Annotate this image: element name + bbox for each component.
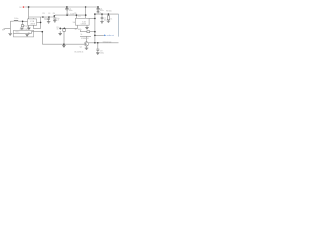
- op-amp U1A box: [28, 19, 37, 26]
- svg-text:ELECTRET: ELECTRET: [20, 29, 30, 31]
- resistor R7 fb body: [87, 31, 90, 33]
- wire V16 collector: [86, 36, 88, 41]
- wire V1 rail drop to IC1A: [28, 7, 30, 19]
- svg-text:1k: 1k: [81, 34, 83, 36]
- ground C7: [100, 22, 103, 24]
- transistor guts: [86, 42, 88, 45]
- junction node (63.9,44.2): [63, 43, 65, 45]
- wire W6 feedback2: [90, 31, 95, 33]
- svg-text:OUT1: OUT1: [96, 13, 101, 15]
- wire V11 resistor chain: [63, 27, 65, 30]
- wire IC1B gnd stub: [86, 25, 88, 27]
- wire +V rail: [25, 6, 99, 8]
- capacitor C4 elec plates: [54, 17, 57, 19]
- junction node (85.7,15.1): [85, 14, 87, 16]
- wire V8 IC1A gnd pin: [28, 25, 30, 27]
- svg-text:100n: 100n: [14, 18, 18, 20]
- resistor R6 body: [63, 29, 66, 32]
- svg-text:C4: C4: [56, 19, 58, 21]
- ground C3: [47, 22, 50, 24]
- ground C6: [97, 11, 100, 13]
- wire mic internal: [13, 32, 28, 34]
- wire gnd below W8 junction: [63, 44, 65, 45]
- pin stub top IC1A: [29, 18, 34, 26]
- ground base R: [62, 46, 66, 48]
- wire W3 feedback1: [33, 28, 40, 30]
- svg-text:5 6: 5 6: [78, 16, 80, 18]
- junction node (94.9,14.1): [94, 13, 96, 15]
- svg-text:R4: R4: [53, 13, 55, 15]
- wire IC1A output pin: [37, 21, 41, 23]
- output arrow blue: [104, 35, 106, 37]
- ground speaker cap: [96, 53, 100, 55]
- svg-text:Q1: Q1: [80, 46, 82, 48]
- svg-text:R7 100k: R7 100k: [75, 29, 82, 31]
- junction node (102,14.1): [101, 13, 103, 15]
- svg-text:BC547B 45: BC547B 45: [75, 52, 84, 54]
- wire V4 bias drop: [22, 21, 24, 24]
- wire V9 IC1B inv pin: [77, 25, 79, 28]
- ground IC1A: [27, 28, 31, 30]
- capacitor C7 plates: [101, 17, 104, 19]
- capacitor C1 series body: [14, 20, 18, 21]
- wire W7 mic exit: [34, 31, 43, 33]
- wire W10 collector right: [89, 42, 119, 44]
- wire V6 output vertical: [40, 17, 42, 29]
- svg-text:LM358: LM358: [30, 24, 35, 26]
- junction node (40.6,22.4): [40, 22, 42, 24]
- junction node (66.9,7): [66, 6, 68, 8]
- ground R8: [107, 21, 110, 23]
- wire V17 out coupling: [97, 43, 99, 49]
- ground stage2 cap: [58, 33, 62, 35]
- stub fb2 up tick: [79, 30, 81, 32]
- svg-text:MIC1: MIC1: [16, 32, 20, 34]
- svg-text:100n: 100n: [69, 10, 73, 12]
- wire C6 bypass drop: [97, 7, 99, 8]
- junction node (42.3,31.7): [42, 31, 44, 33]
- svg-text:C3: C3: [48, 13, 50, 15]
- junction node (42.9,17): [42, 16, 44, 18]
- wire input net left: [10, 20, 13, 22]
- junction node (97.8,42.8): [97, 42, 99, 44]
- wire C6 to gnd: [97, 10, 99, 12]
- wire input pin IC1A: [23, 20, 28, 22]
- svg-text:1k: 1k: [57, 29, 59, 31]
- junction node (94.9,35.3): [94, 35, 96, 37]
- resistor R8 body: [107, 16, 109, 20]
- ground mic: [26, 35, 29, 36]
- svg-text:1k: 1k: [110, 19, 112, 21]
- svg-text:C5: C5: [66, 13, 68, 15]
- wire V15 mic drop: [41, 32, 43, 45]
- svg-text:R5: R5: [74, 13, 76, 15]
- wire W8 base wire: [42, 43, 84, 45]
- wire W1 mid wire stage1: [29, 15, 86, 17]
- svg-text:10n: 10n: [104, 19, 107, 21]
- wire C3 to gnd: [48, 20, 50, 22]
- wire C4 to gnd: [54, 19, 56, 22]
- wire C5 bypass drop: [66, 7, 68, 8]
- capacitor bias body: [21, 25, 23, 27]
- svg-text:SPEAKER: SPEAKER: [81, 37, 89, 40]
- input chevron: [4, 28, 5, 29]
- wire V10 to gnd cap: [59, 28, 61, 30]
- junction node (85.6,7): [85, 6, 86, 7]
- wire V2 rail drop to IC1B: [85, 7, 87, 18]
- wire V3 W2 to IC1B top: [75, 15, 77, 18]
- capacitor C6 bypass right plates: [97, 8, 100, 10]
- junction node (94.9,42.8): [94, 42, 96, 44]
- mic module box: [13, 30, 33, 37]
- junction node (60.2,28.3): [59, 28, 61, 30]
- ground emitter: [85, 48, 89, 50]
- capacitor C5 bypass left plates: [47, 9, 103, 51]
- ground IC1B: [85, 27, 89, 29]
- wire W5 top right: [95, 13, 119, 15]
- capacitor speaker elec plates: [96, 48, 99, 50]
- junction node (67.1,15.1): [66, 14, 68, 16]
- power flag red: [23, 6, 25, 7]
- svg-text:10k: 10k: [73, 22, 76, 24]
- junction node (94.9,31.7): [94, 31, 96, 33]
- svg-text:100n: 100n: [44, 19, 48, 21]
- node junction dots: [22, 6, 109, 45]
- junction node (76.4,15.1): [76, 14, 78, 16]
- ground bias: [20, 28, 24, 30]
- svg-text:R8 10k: R8 10k: [106, 11, 112, 13]
- wire V12 output vertical: [94, 14, 96, 43]
- junction node (22.6,21.3): [22, 21, 24, 23]
- ground C4: [53, 21, 56, 23]
- svg-text:4 8: 4 8: [26, 26, 28, 28]
- junction node (64.4,28.3): [64, 28, 66, 30]
- wire C3 drop: [48, 17, 50, 18]
- wire emitter gnd: [86, 46, 88, 48]
- mic element bars: [27, 33, 30, 35]
- ground symbols: [8, 11, 110, 54]
- wire C7 drop: [101, 14, 103, 17]
- wire V7 fb to box bottom: [32, 25, 34, 28]
- wire C4 drop: [53, 16, 55, 18]
- wire input net right: [18, 20, 22, 22]
- svg-text:LM358: LM358: [81, 24, 86, 26]
- wire R8 drop: [107, 14, 109, 16]
- svg-text:audio out: audio out: [107, 34, 114, 37]
- capacitor C3 plates: [47, 17, 49, 19]
- svg-text:100u: 100u: [100, 52, 104, 54]
- op-amp U1B box: [75, 18, 89, 25]
- transistor Q1 circle: [84, 42, 88, 46]
- wire W12 output tap: [95, 34, 104, 36]
- wire C5 to W2: [66, 10, 68, 16]
- junction node (94.9,18.4): [94, 18, 96, 20]
- junction node (54.3,15.9): [54, 15, 56, 17]
- wire W9 collector rail: [80, 35, 91, 37]
- wire V5 input vertical: [9, 21, 11, 33]
- ground input: [8, 34, 12, 36]
- junction node (108.4,14.1): [108, 13, 110, 15]
- junction node (98,7): [97, 6, 99, 8]
- svg-text:5V level out: 5V level out: [103, 40, 112, 43]
- junction node (49,17): [48, 16, 50, 18]
- wire W4 stage2 bottom: [60, 27, 77, 29]
- wire input stub: [5, 28, 10, 30]
- wire V13 right edge drop: [118, 14, 120, 36]
- wire IC1B output pin: [89, 17, 95, 19]
- junction node (28.6,7): [28, 6, 30, 8]
- svg-text:R3: R3: [42, 13, 44, 15]
